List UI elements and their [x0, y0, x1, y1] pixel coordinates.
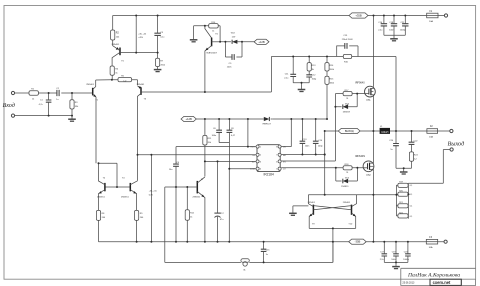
transistor T6 MJE13007: [205, 26, 212, 38]
ground R7: [154, 69, 162, 71]
wire T1 collector to node N1: [96, 79, 112, 81]
svg-text:2: 2: [260, 155, 261, 157]
svg-text:2N5401: 2N5401: [137, 84, 145, 86]
svg-text:1N5819: 1N5819: [341, 186, 349, 188]
wire R15 to +12V rail: [326, 84, 328, 119]
svg-text:Вход: Вход: [3, 102, 15, 109]
wire R4 to node N1: [111, 75, 113, 79]
pin 8 pad: [278, 145, 281, 148]
wire T7 base: [165, 186, 198, 188]
svg-text:+36..+55: +36..+55: [138, 33, 147, 35]
svg-text:2N5401: 2N5401: [343, 202, 351, 204]
wire gate network verticals low: [336, 168, 363, 181]
svg-text:100n: 100n: [391, 259, 395, 261]
resistor R11: [204, 119, 206, 177]
svg-text:1N5819: 1N5819: [343, 111, 351, 113]
capacitor C12: [308, 71, 310, 83]
svg-text:0,1: 0,1: [410, 194, 413, 196]
svg-text:cxem.net: cxem.net: [433, 280, 451, 285]
transistor T5 2N5401: [113, 40, 120, 50]
net label +35B: [349, 13, 368, 18]
svg-text:+35В: +35В: [355, 14, 362, 18]
capacitor C19 (bottom): [395, 242, 397, 263]
wire R10 left to ground: [194, 26, 209, 40]
wire bottom caps join: [384, 262, 408, 266]
terminal output return: [450, 148, 453, 151]
wire HO pin7: [281, 154, 325, 156]
wire VCC pin1: [176, 146, 256, 148]
wire VT1 source to output: [372, 97, 374, 131]
capacitor C17 (bottom): [383, 242, 385, 263]
wire COM pin4: [229, 168, 256, 170]
terminal -35V supply: [444, 240, 447, 243]
wire output return: [408, 150, 450, 184]
svg-text:10A: 10A: [429, 246, 433, 249]
svg-text:0,1: 0,1: [410, 185, 413, 187]
pin 3 pad: [256, 160, 259, 163]
resistor R16: [337, 56, 358, 58]
svg-text:IR2184: IR2184: [263, 172, 274, 176]
svg-text:-35В: -35В: [355, 240, 361, 244]
svg-text:5: 5: [276, 169, 277, 171]
diode VD1 HER107: [264, 117, 270, 121]
wire cross coupling: [313, 206, 351, 210]
wire output node: [325, 130, 450, 132]
junction dots: [135, 15, 137, 17]
capacitor C4 line: [175, 147, 177, 242]
svg-text:0,1: 0,1: [410, 216, 413, 218]
pin 2 pad: [256, 153, 259, 156]
resistor R2: [111, 30, 115, 40]
wire VT2 drain from output: [372, 131, 374, 161]
ground input: [68, 118, 76, 120]
pin 1 pad: [256, 145, 259, 148]
svg-text:6,3V: 6,3V: [149, 194, 154, 196]
svg-text:8: 8: [276, 147, 277, 149]
svg-text:HER107: HER107: [263, 124, 272, 126]
wire R16 node to snubber drop: [358, 57, 396, 132]
wire input lower: [15, 116, 72, 120]
wire mirror bases: [105, 186, 130, 188]
wire T3 base (to +feedback rail): [141, 57, 271, 93]
svg-text:10A: 10A: [429, 135, 433, 138]
wire pin4 drop: [228, 169, 230, 242]
svg-text:2N5551: 2N5551: [121, 196, 129, 198]
svg-text:+36..+55: +36..+55: [149, 191, 158, 193]
svg-text:2,2u: 2,2u: [380, 259, 384, 261]
resistor R19: [398, 183, 408, 187]
svg-text:7: 7: [276, 155, 277, 157]
capacitor C17 47u (pin3 net): [217, 161, 219, 241]
ground bottom caps: [392, 266, 400, 268]
capacitor C15: [263, 242, 265, 263]
resistor R5: [118, 78, 132, 82]
net label +12B (rail): [181, 116, 196, 121]
wire pin2 net drop: [150, 155, 152, 242]
wire gate network verticals: [335, 94, 364, 107]
svg-text:Выход: Выход: [448, 140, 465, 147]
capacitor C8: [228, 119, 230, 143]
capacitor C20: [395, 131, 397, 168]
capacitor C13: [301, 119, 303, 155]
svg-text:220uF 200V: 220uF 200V: [342, 39, 354, 41]
svg-text:2N5401: 2N5401: [112, 44, 120, 46]
wire VS pin6 to high gate network: [281, 107, 335, 161]
title block: [401, 268, 476, 279]
capacitor C18: [393, 16, 395, 36]
wire input to R1: [15, 92, 29, 94]
capacitor C23 (bottom): [407, 242, 409, 263]
svg-text:6: 6: [276, 161, 277, 163]
resistor R4: [110, 66, 114, 75]
terminal input bottom: [11, 114, 14, 117]
resistor R22: [398, 214, 408, 218]
wire mirror bracket: [99, 163, 118, 187]
pin 5 pad: [278, 167, 281, 170]
ground supply caps: [390, 38, 398, 40]
wire rail corner down to R2: [112, 16, 114, 31]
resistor R1: [29, 91, 38, 95]
wire N1 to R5 and R5 to T3: [112, 80, 138, 86]
svg-text:1000p: 1000p: [400, 29, 407, 31]
wire output feedback drop: [324, 131, 326, 195]
svg-text:MJE13007: MJE13007: [207, 52, 218, 54]
wire snubber join: [396, 168, 412, 172]
svg-text:100uH: 100uH: [381, 131, 388, 134]
wire caps bottom join: [384, 35, 405, 39]
svg-text:4: 4: [260, 169, 261, 171]
terminal +35V supply: [444, 14, 447, 17]
svg-text:R20: R20: [399, 191, 402, 193]
net label -35B: [349, 239, 367, 244]
svg-text:R21: R21: [399, 202, 402, 204]
svg-text:ВЫХОД: ВЫХОД: [345, 130, 354, 133]
wire LO pin5 to low gate network: [281, 167, 336, 169]
svg-text:R19: R19: [399, 182, 402, 184]
resistor R24: [409, 152, 413, 161]
wire T5 base: [121, 52, 158, 54]
wire C11 C12 join to ground: [293, 83, 309, 90]
ground snubber: [400, 171, 408, 173]
resistor R7: [157, 53, 159, 70]
svg-text:2N5551: 2N5551: [97, 196, 105, 198]
wire C2 to T1 base: [61, 92, 92, 94]
svg-text:1: 1: [260, 147, 261, 149]
svg-text:2N5401: 2N5401: [86, 84, 94, 86]
svg-text:LO: LO: [283, 169, 286, 171]
net label ВЫХОД: [338, 128, 360, 133]
wire cross pair emitters join: [309, 228, 356, 262]
svg-text:+45V: +45V: [138, 37, 143, 39]
capacitor C11: [292, 57, 294, 83]
capacitor C2: [57, 90, 59, 96]
wire -35V rail: [99, 241, 445, 243]
svg-text:0,1: 0,1: [410, 206, 413, 208]
pin 6 pad: [278, 160, 281, 163]
op-amp U1 IR2184 body: [257, 145, 280, 172]
svg-text:+12В: +12В: [258, 40, 265, 44]
wire sense bus right: [407, 183, 409, 218]
svg-text:ПалНик А.Королькова: ПалНик А.Королькова: [407, 273, 460, 279]
svg-text:R22: R22: [399, 212, 402, 214]
capacitor C14: [315, 119, 317, 155]
capacitor C1: [48, 93, 50, 116]
terminal input top: [11, 91, 14, 94]
ground cross pair: [289, 212, 297, 214]
net label +12B (source): [254, 39, 269, 44]
svg-text:2N5551: 2N5551: [193, 197, 201, 199]
svg-text:12V: 12V: [232, 36, 236, 38]
svg-text:1000p: 1000p: [403, 259, 409, 261]
svg-text:IRF640N: IRF640N: [355, 155, 365, 158]
resistor R12: [186, 187, 188, 242]
wire current-limit rail: [308, 194, 396, 196]
wire mid rail y=56.5: [271, 56, 336, 58]
resistor R20: [398, 192, 408, 196]
wire +12V rail: [196, 118, 327, 120]
wire sense bus left: [395, 185, 397, 216]
wire R10 right down: [218, 26, 220, 42]
wire VT2 source to -35V: [372, 172, 374, 242]
capacitor C22: [411, 131, 413, 152]
wire +35V drop to T5 base: [135, 16, 137, 53]
ground T6 bias: [190, 39, 198, 41]
pin 4 pad: [256, 167, 259, 170]
wire IN pin2: [138, 154, 256, 156]
resistor R14: [326, 57, 328, 63]
wire SD pin3: [205, 160, 256, 162]
resistor R13: [308, 57, 310, 63]
svg-text:3: 3: [260, 161, 261, 163]
wire VB pin8: [281, 119, 291, 147]
wire T7 base left drop to bottom return: [164, 187, 166, 262]
wire VT1 drain from +35V: [372, 16, 374, 87]
svg-text:IRF9640: IRF9640: [355, 81, 365, 84]
wire top +35V rail: [113, 15, 349, 17]
resistor R15: [326, 71, 328, 76]
svg-text:25.06.2013: 25.06.2013: [402, 282, 415, 285]
thermistor RK1: [241, 259, 249, 263]
capacitor C6: [218, 119, 220, 143]
capacitor C3: [157, 16, 159, 53]
resistor R3: [71, 93, 73, 116]
svg-text:1k: 1k: [212, 31, 214, 33]
wire bottom return: [165, 242, 333, 263]
capacitor C21: [404, 16, 406, 36]
capacitor C9: [225, 42, 242, 57]
resistor R21: [398, 204, 408, 208]
svg-text:VT1: VT1: [366, 100, 371, 102]
svg-text:HO: HO: [283, 155, 287, 157]
svg-text:VT2: VT2: [366, 175, 371, 177]
wire R1 to C2: [38, 92, 57, 94]
svg-text:10A: 10A: [429, 20, 433, 23]
wire VCC drop from +12V: [247, 119, 249, 147]
wire cross pair ground: [293, 206, 309, 213]
svg-text:+12В: +12В: [185, 117, 192, 121]
wire C6 C8 join: [219, 143, 229, 169]
transistor T7 2N5551: [196, 181, 198, 194]
pin 7 pad: [278, 153, 281, 156]
terminal output plus: [450, 129, 453, 132]
capacitor C16: [383, 16, 385, 36]
ground C11 C12: [298, 89, 306, 91]
resistor R9: [135, 210, 139, 220]
wire sense stack stubs: [396, 185, 398, 216]
resistor R8: [96, 210, 100, 220]
